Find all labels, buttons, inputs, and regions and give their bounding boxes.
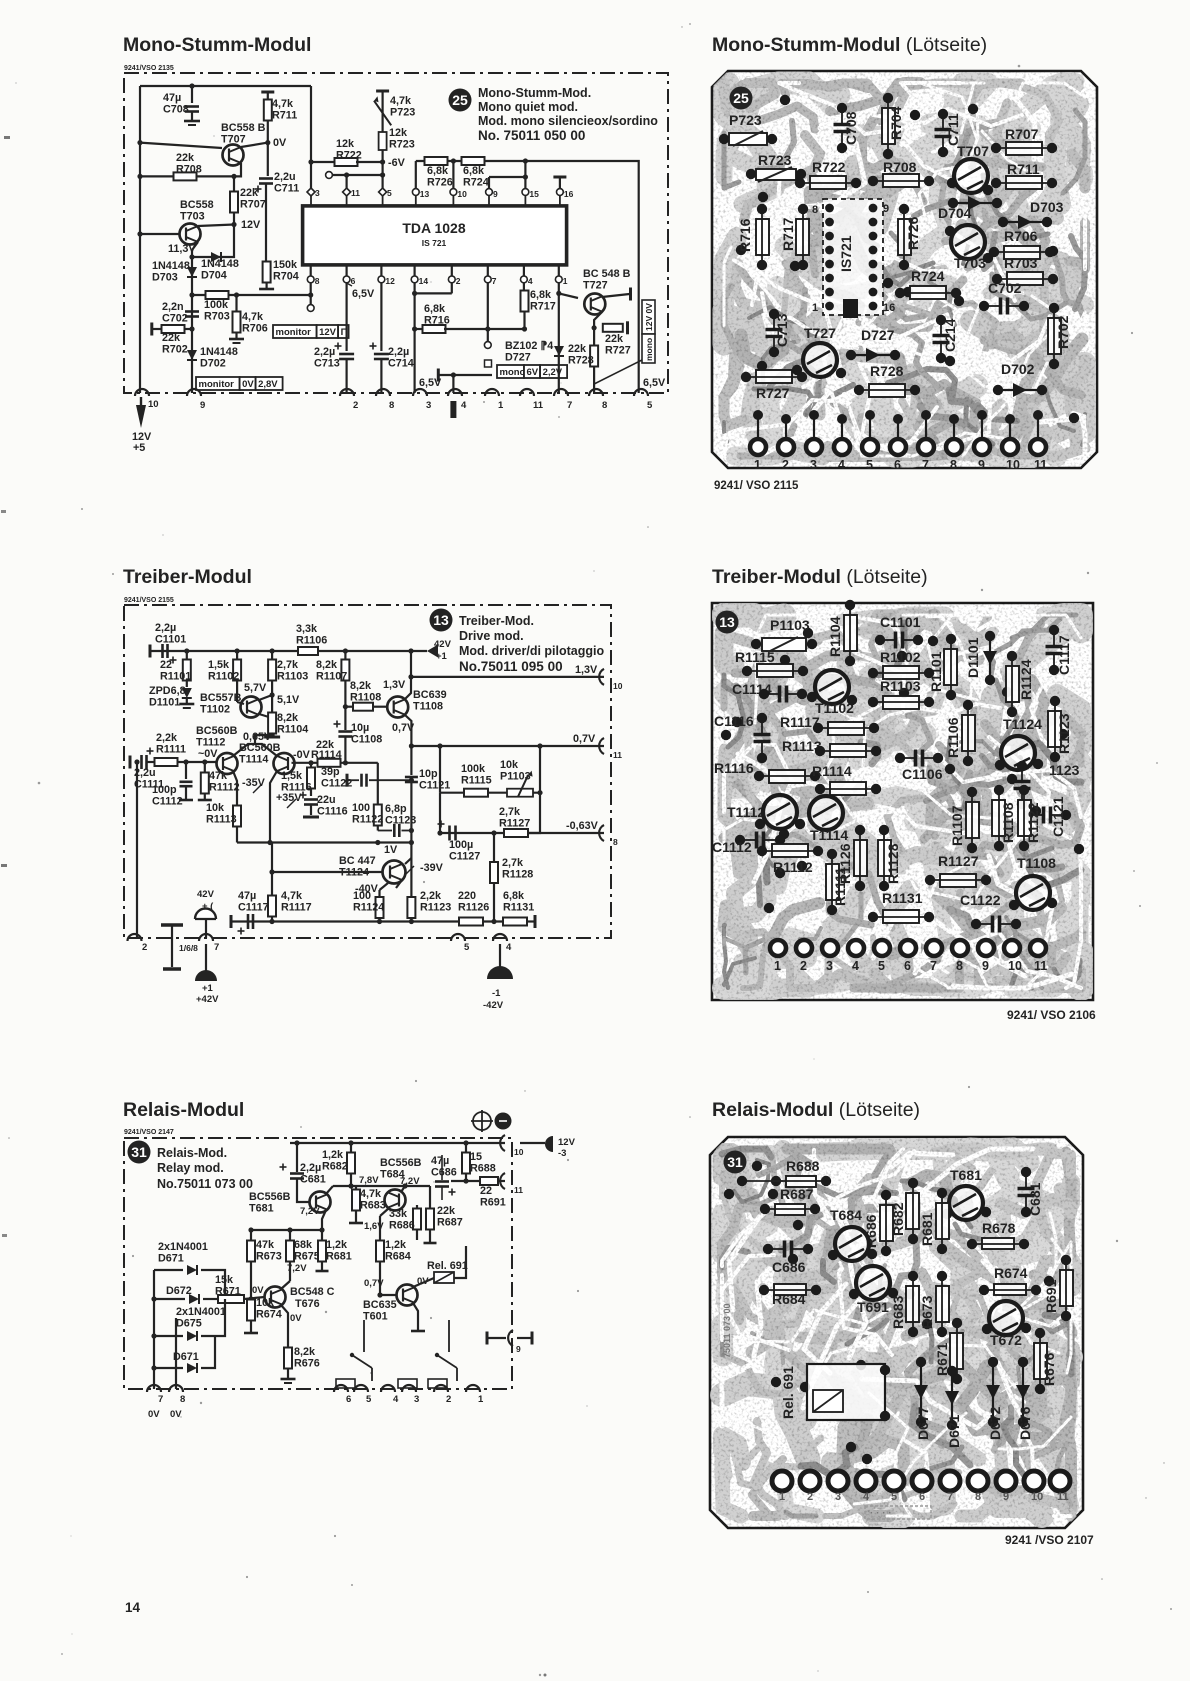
svg-text:R726: R726 [905,216,921,250]
svg-text:1/6/8: 1/6/8 [179,943,198,953]
resistor R1122 100 [377,763,379,806]
svg-text:15: 15 [529,189,539,199]
svg-text:7,2V: 7,2V [287,1263,307,1274]
svg-text:5: 5 [366,1394,372,1405]
svg-text:7: 7 [214,942,219,953]
resistor R716 [756,219,769,255]
svg-text:Mono-Stumm-Modul: Mono-Stumm-Modul [123,34,311,56]
transistor T1114 [809,796,843,830]
resistor R1123 [1048,711,1061,747]
svg-text:R704: R704 [273,270,299,282]
svg-text:+35V: +35V [276,792,302,804]
wire T676 emitter [281,1305,288,1348]
svg-text:2: 2 [446,1394,451,1405]
bottom hooks and grounds [128,934,142,941]
svg-text:11: 11 [514,1185,523,1195]
svg-text:Relay mod.: Relay mod. [157,1161,224,1175]
capacitor C1117 47µ [247,914,250,929]
resistor R1127 2,7k [504,829,528,837]
svg-text:1,5k: 1,5k [281,770,303,782]
svg-text:6: 6 [904,959,911,973]
svg-text:BC548 C: BC548 C [290,1286,335,1298]
svg-text:R703: R703 [204,310,230,322]
ground symbol 1/6/8 [171,925,173,967]
svg-text:10: 10 [613,681,623,691]
svg-text:9: 9 [493,189,498,199]
svg-text:T727: T727 [583,279,608,291]
svg-text:BZ102 ⁋4: BZ102 ⁋4 [505,340,553,352]
resistor R1104 [268,713,276,734]
svg-text:BC560B: BC560B [196,725,238,737]
badge 25 [449,89,472,112]
resistor R727 [592,325,597,330]
svg-text:P723: P723 [390,106,415,118]
svg-text:BC558 B: BC558 B [221,122,266,134]
svg-text:P723: P723 [729,112,762,128]
supply 12V -3 [520,1142,545,1144]
resistor R687 22k [429,1186,431,1209]
svg-text:1V: 1V [384,844,398,856]
ground hook 10 [135,389,149,396]
svg-text:Mono-Stumm-Mod.: Mono-Stumm-Mod. [478,86,591,100]
label monitor 12V [273,325,317,338]
svg-text:D727: D727 [505,351,531,363]
svg-text:8,2k: 8,2k [294,1346,316,1358]
svg-text:9: 9 [1003,1491,1009,1503]
resistor R1126 220 [459,918,483,926]
svg-text:P1103: P1103 [500,770,531,782]
wire 0,7V to pin 11 [411,745,604,747]
svg-text:R706: R706 [1004,228,1038,244]
svg-text:R1106: R1106 [945,717,961,758]
svg-text:22k: 22k [605,333,624,345]
capacitor C1127 100µ [437,830,442,835]
capacitor C1123 6,8p [378,830,392,832]
resistor R723 [379,132,387,150]
svg-text:C1122: C1122 [960,892,1001,908]
resistor R1107 [343,648,348,653]
wire 1,3V to pin 10 [411,676,604,678]
svg-text:2: 2 [142,942,147,953]
bottom hooks right [334,1385,348,1392]
svg-text:150k: 150k [273,259,298,271]
svg-text:1: 1 [498,400,504,411]
svg-text:D727: D727 [861,327,895,343]
capacitor C708 [191,86,193,103]
diode D702 1N4148 [187,350,197,360]
stray pads [724,1189,734,1199]
svg-text:3: 3 [835,1491,841,1503]
svg-text:22k: 22k [176,152,195,164]
svg-text:6: 6 [346,1394,351,1405]
svg-text:R674: R674 [994,1265,1028,1281]
transistor T1102 [815,670,849,704]
svg-text:2,2k: 2,2k [156,732,178,744]
capacitor C713 [346,283,348,351]
svg-text:+5: +5 [133,442,145,454]
svg-text:5,1V: 5,1V [277,694,300,706]
svg-text:+1: +1 [202,983,214,994]
svg-text:16: 16 [564,189,574,199]
resistor R1123 2,2k [405,858,411,864]
svg-text:R1106: R1106 [296,634,327,646]
svg-text:R676: R676 [1041,1352,1057,1386]
wire T601 base [380,1294,397,1296]
hook 7 with +42V dome [205,919,207,938]
svg-text:C681: C681 [1027,1182,1043,1216]
svg-text:47µ: 47µ [238,890,256,902]
copper traces [724,615,1081,988]
svg-text:100k: 100k [461,763,486,775]
diode D704 [955,202,995,204]
svg-text:-1: -1 [492,988,501,999]
svg-text:R678: R678 [982,1220,1016,1236]
badge 31 [724,1151,747,1174]
svg-text:D671: D671 [158,1252,184,1264]
capacitor C686 [783,1241,787,1258]
svg-text:R1128: R1128 [502,868,533,880]
resistor R1126 [854,840,867,876]
svg-text:R1113: R1113 [206,813,237,825]
svg-text:R1131: R1131 [503,901,534,913]
svg-text:Treiber-Modul: Treiber-Modul [123,566,252,588]
diode D703 1N4148 [187,267,197,277]
svg-text:D672: D672 [987,1406,1003,1440]
wire T1124 emitter [396,880,402,888]
svg-text:7,2V: 7,2V [300,1206,320,1217]
wire lower node rail [237,841,411,843]
resistor R1111 [147,761,155,763]
wire T727 collector [602,294,630,297]
svg-text:3: 3 [315,188,320,198]
svg-text:R1116: R1116 [714,760,754,776]
svg-text:R716: R716 [737,218,753,252]
svg-text:Treiber-Modul (Lötseite): Treiber-Modul (Lötseite) [712,566,928,588]
svg-text:10k: 10k [500,759,519,771]
capacitor C1121 [1042,807,1046,824]
wire top rail [140,85,311,87]
hook 5 [451,934,465,941]
svg-text:C1116: C1116 [317,805,348,817]
svg-text:1,2k: 1,2k [385,1239,407,1251]
svg-text:4,7k: 4,7k [281,890,303,902]
bottom hooks left [147,1385,161,1392]
svg-text:R691: R691 [480,1196,506,1208]
svg-text:6,8k: 6,8k [427,165,449,177]
resistor R691 [1060,1270,1073,1306]
resistor R1102 [235,648,240,653]
resistor R681 1,2k [321,1230,323,1241]
svg-text:T684: T684 [380,1168,405,1180]
svg-text:R1102: R1102 [208,670,239,682]
svg-text:BC635: BC635 [363,1299,397,1311]
svg-text:1,5k: 1,5k [208,659,230,671]
resistor R704 [265,205,267,262]
wire hook4 net [437,369,440,382]
svg-text:T684: T684 [830,1207,862,1223]
wire second rail [416,161,639,393]
transistor T691 [856,1266,890,1300]
svg-text:BC639: BC639 [413,689,447,701]
svg-text:7,8V: 7,8V [359,1175,379,1186]
svg-text:R727: R727 [756,385,790,401]
svg-text:2,2µ: 2,2µ [155,622,176,634]
resistor R684 1,2k [379,1216,381,1241]
svg-text:Treiber-Mod.: Treiber-Mod. [459,614,534,628]
svg-text:D671: D671 [946,1414,962,1448]
svg-text:9241/ VSO 2115: 9241/ VSO 2115 [714,480,799,492]
svg-text:R682: R682 [322,1160,348,1172]
svg-text:9: 9 [200,400,205,411]
capacitor C681 [1018,1187,1035,1191]
resistor R703 [192,294,311,296]
wire pin8 monitor net [310,283,312,295]
svg-text:R722: R722 [336,149,362,161]
svg-text:-6V: -6V [388,157,406,169]
svg-text:R1128: R1128 [885,843,901,884]
svg-text:R1102: R1102 [880,649,921,665]
resistor R1128 [878,840,891,876]
svg-text:1: 1 [812,302,818,314]
resistor R1106 [298,647,318,655]
svg-text:1: 1 [478,1394,484,1405]
svg-text:1,2k: 1,2k [326,1239,348,1251]
resistor R727 [756,370,792,383]
svg-text:39p: 39p [321,766,340,778]
svg-text:R673: R673 [919,1295,935,1329]
svg-text:BC556B: BC556B [249,1191,291,1203]
wire T703 emitter [192,242,198,250]
svg-text:1N4148: 1N4148 [201,258,239,270]
wire pin 11 net [451,1180,480,1182]
svg-text:D1101: D1101 [149,696,180,708]
svg-text:8,2k: 8,2k [316,659,338,671]
wire rail hook8 [175,1318,177,1389]
svg-text:4: 4 [528,276,533,286]
svg-text:11: 11 [351,188,360,198]
capacitor C1112 100p [183,759,188,764]
wire T1108 emitter [405,715,411,746]
svg-text:3,3k: 3,3k [296,623,318,635]
capacitor C1108 [338,730,352,733]
capacitor C1116 [754,733,771,737]
svg-text:T676: T676 [295,1298,320,1310]
terminal pin16 [553,176,566,179]
svg-text:R682: R682 [890,1202,906,1236]
pin 10 [500,1135,505,1151]
wire node 7,8V [333,1185,430,1187]
resistor R683 [906,1286,919,1322]
svg-text:2x1N4001: 2x1N4001 [176,1306,226,1318]
svg-text:4: 4 [393,1394,399,1405]
svg-text:1,6V: 1,6V [364,1221,384,1232]
svg-text:2,7k: 2,7k [499,806,521,818]
svg-text:25: 25 [733,90,749,106]
resistor R674 10k [250,1299,252,1300]
wire T703 collector [198,225,234,227]
svg-text:2: 2 [800,959,807,973]
svg-text:2x1N4001: 2x1N4001 [158,1241,208,1253]
svg-text:C1116: C1116 [714,713,754,729]
svg-text:T727: T727 [804,325,836,341]
svg-text:No.75011 095 00: No.75011 095 00 [459,659,563,674]
resistor R728 [590,346,598,367]
svg-text:D676: D676 [1017,1406,1033,1440]
svg-text:D703: D703 [152,271,178,283]
wire emitters join [233,744,277,756]
svg-text:1N4148: 1N4148 [152,260,190,272]
svg-text:D702: D702 [200,357,226,369]
svg-text:2,2n: 2,2n [162,301,184,313]
supply arrow 12V +5 [136,405,146,428]
transistor T676 BC548C [265,1287,286,1308]
svg-text:T1108: T1108 [413,700,443,712]
svg-text:R703: R703 [1004,255,1038,271]
wire T1108 collector [405,651,411,699]
svg-text:R1111: R1111 [832,867,848,906]
resistor R1117 4,7k [271,872,273,897]
wire T1102 collector [259,695,272,700]
svg-text:4: 4 [506,942,512,953]
svg-text:R676: R676 [294,1357,320,1369]
ground hook 9 [187,389,201,396]
svg-text:10p: 10p [419,768,438,780]
svg-text:R711: R711 [1007,161,1040,177]
svg-text:2,2µ: 2,2µ [388,346,409,358]
svg-text:C702: C702 [162,312,188,324]
resistor R1111 [826,864,839,900]
svg-text:Drive mod.: Drive mod. [459,629,524,643]
svg-text:monitor: monitor [276,327,312,338]
svg-text:4: 4 [852,959,859,973]
svg-text:3: 3 [414,1394,419,1405]
resistor R717 [796,219,809,255]
svg-text:4: 4 [838,458,845,472]
svg-text:5: 5 [891,1491,897,1503]
svg-text:9: 9 [883,203,889,215]
badge 25 [730,87,753,110]
schematic frame Relais-Modul [124,1138,512,1389]
scan grain [712,603,1093,1000]
svg-text:2: 2 [807,1491,813,1503]
svg-text:9: 9 [982,959,989,973]
svg-text:C1117: C1117 [238,901,269,913]
svg-text:75011 073 00: 75011 073 00 [722,1303,732,1358]
svg-text:6: 6 [919,1491,925,1503]
svg-text:C1121: C1121 [419,779,450,791]
svg-text:monitor: monitor [199,379,235,390]
capacitor C1111 [129,756,132,769]
svg-text:2,2µ: 2,2µ [314,346,335,358]
svg-text:1: 1 [774,959,781,973]
label mono 6V 2,2V [497,365,524,378]
svg-text:10k: 10k [256,1297,275,1309]
svg-text:T1112: T1112 [196,736,225,748]
svg-text:8: 8 [602,400,607,411]
svg-text:1: 1 [563,276,568,286]
relay switch contacts [363,1320,365,1346]
svg-text:Relais-Modul (Lötseite): Relais-Modul (Lötseite) [712,1099,920,1121]
wire T601 collector [413,1284,420,1287]
page dust [739,1244,741,1246]
resistor R1113 10k [233,806,241,827]
svg-text:2: 2 [456,276,461,286]
svg-text:11: 11 [613,750,622,760]
svg-text:5: 5 [387,188,392,198]
wire T1114 collector [270,771,277,843]
zener diode D727 BZ102 [558,283,560,393]
svg-text:C1101: C1101 [880,614,921,630]
svg-text:D704: D704 [201,269,227,281]
svg-text:47µ: 47µ [163,92,181,104]
svg-text:7: 7 [492,276,497,286]
svg-text:BC 447: BC 447 [339,855,376,867]
svg-text:12V: 12V [319,327,337,338]
svg-text:10: 10 [1031,1491,1043,1503]
resistor R1115 100k [439,746,441,793]
wire T681 emitter [322,1210,326,1230]
wire right rail x311 [310,86,312,188]
svg-text:R708: R708 [883,159,917,175]
wire node x192 [191,250,193,393]
svg-text:R711: R711 [272,109,297,121]
capacitor C1106 [914,750,918,767]
svg-text:3: 3 [826,959,833,973]
svg-text:T601: T601 [363,1310,388,1322]
svg-text:-0V: -0V [293,749,311,761]
svg-text:1: 1 [754,458,761,472]
svg-text:100: 100 [352,802,370,814]
svg-text:8: 8 [956,959,963,973]
svg-text:11: 11 [1034,458,1047,472]
svg-text:9: 9 [978,458,985,472]
svg-text:8: 8 [975,1491,981,1503]
zener diode D1101 ZPD6,8 [182,688,192,698]
svg-text:T1102: T1102 [200,703,230,715]
svg-text:D677: D677 [915,1406,931,1440]
svg-text:2,7k: 2,7k [277,659,299,671]
svg-text:R1107: R1107 [316,670,347,682]
scan grain [712,71,1097,468]
svg-text:2,2u: 2,2u [274,171,296,183]
connector blocks [336,1379,355,1388]
svg-text:47k: 47k [209,770,228,782]
svg-text:4: 4 [863,1491,870,1503]
wire base bias rail [251,1229,322,1231]
label mono 12V 0V vertical [642,300,655,334]
svg-text:0V: 0V [252,1285,264,1296]
svg-text:C711: C711 [945,113,961,146]
capacitor C713 [766,328,783,332]
svg-text:C702: C702 [988,280,1022,296]
svg-text:-3: -3 [558,1148,566,1159]
diode D676 [1022,1364,1024,1420]
svg-text:R675: R675 [294,1250,320,1262]
svg-text:D704: D704 [938,205,972,221]
svg-text:220: 220 [458,890,476,902]
svg-text:7: 7 [947,1491,953,1503]
svg-text:C1117: C1117 [1056,635,1072,675]
resistor R1108 [992,800,1005,836]
svg-text:13: 13 [433,612,449,628]
wire pin11 link [326,172,333,179]
svg-text:C713: C713 [314,357,340,369]
badge 13 [716,611,739,634]
svg-text:mono: mono [500,367,526,378]
svg-text:C214: C214 [942,318,958,352]
resistor R1101 [944,649,957,685]
svg-text:C708: C708 [843,111,859,145]
